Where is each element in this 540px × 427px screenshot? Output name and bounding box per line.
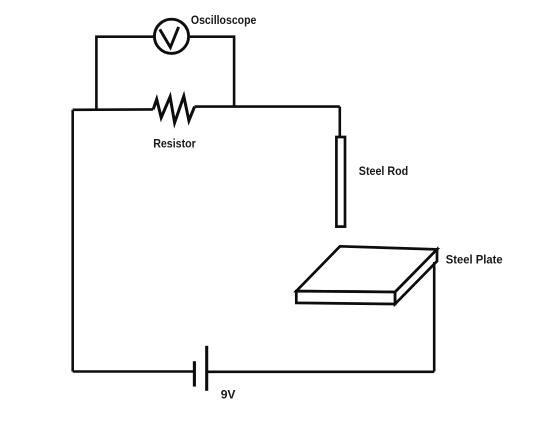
svg-text:Resistor: Resistor [153,137,196,151]
oscilloscope U1 (voltmeter circle with V) [154,19,188,53]
wire: from steel plate corner down to bottom run [433,262,436,372]
battery BT1 9V: long (positive) plate [205,346,208,391]
wire: main horizontal run right of resistor to steel-rod drop [195,105,340,108]
svg-text:Steel Plate: Steel Plate [446,252,503,266]
steel plate electrode (3-D slab: top, front and right faces) [296,246,437,304]
wire: drop from horizontal run to steel rod top [338,107,341,137]
wire: oscilloscope left branch (top-left corner down to resistor line) [96,37,153,110]
wire: bottom run left of battery [73,370,195,373]
svg-text:Steel Rod: Steel Rod [359,164,408,178]
battery BT1 9V: short (negative) plate [193,361,196,386]
resistor (zig-zag) [153,96,194,123]
wire: oscilloscope right branch (circle right, over and down to resistor line) [190,37,234,107]
wire: left vertical run [71,110,74,372]
wire: main horizontal run left of resistor [73,108,154,111]
steel rod electrode [336,137,345,227]
wire: bottom run right of battery [207,370,435,373]
svg-text:Oscilloscope: Oscilloscope [191,13,257,27]
svg-text:9V: 9V [221,387,237,401]
